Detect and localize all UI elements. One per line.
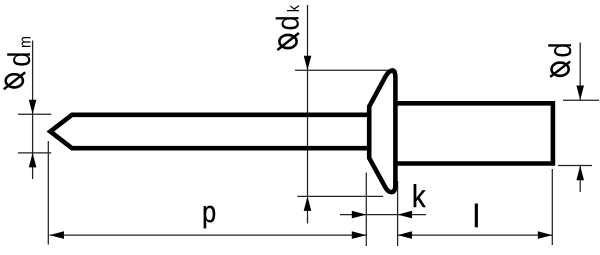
svg-text:d: d xyxy=(542,42,578,57)
svg-text:k: k xyxy=(285,4,303,12)
svg-text:d: d xyxy=(1,52,37,67)
svg-text:d: d xyxy=(270,15,306,30)
svg-text:k: k xyxy=(412,178,426,214)
svg-text:m: m xyxy=(16,36,34,48)
svg-text:p: p xyxy=(202,196,216,229)
svg-text:l: l xyxy=(473,198,479,234)
